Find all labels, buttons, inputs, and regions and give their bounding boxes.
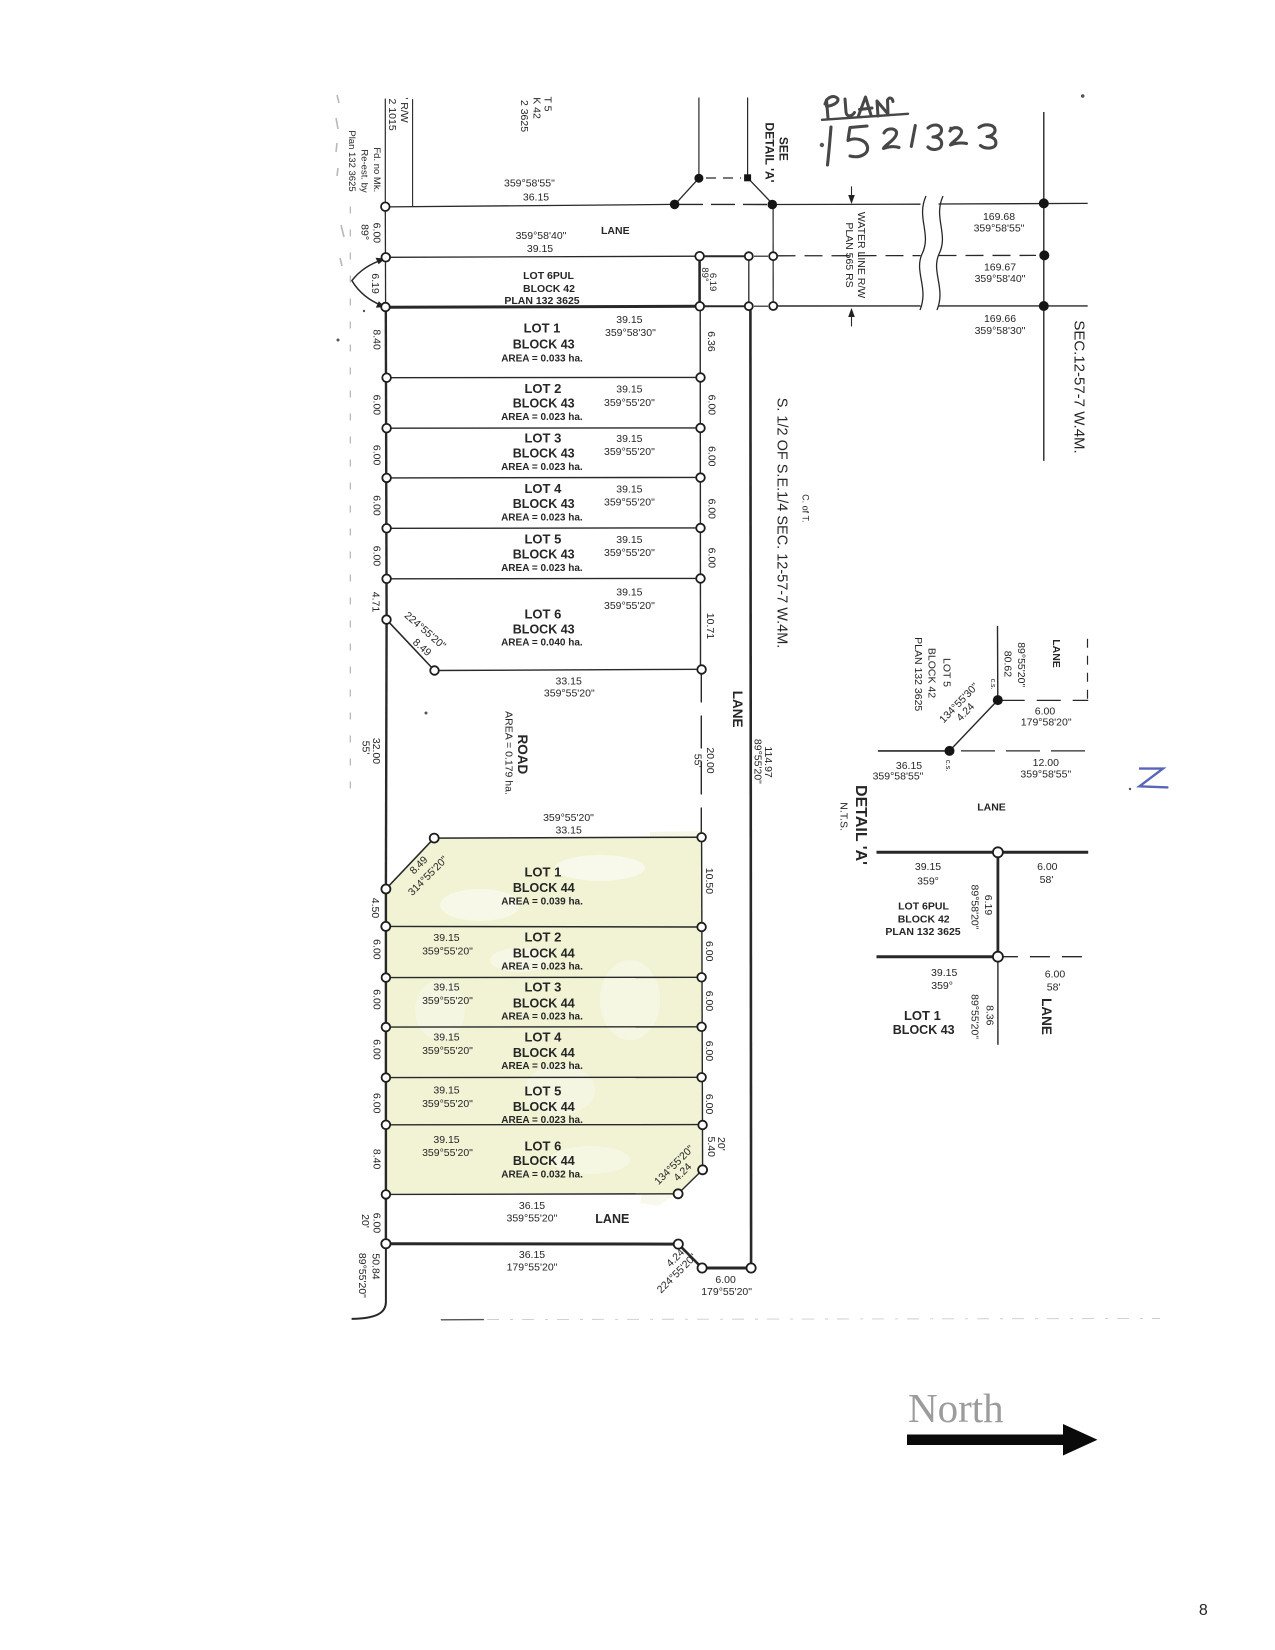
svg-text:LANE: LANE: [977, 802, 1006, 814]
west dim 50.84: [356, 1253, 382, 1298]
svg-text:6.36: 6.36: [705, 331, 717, 352]
DETAIL A : lot 5 block 42 label: [912, 637, 952, 711]
svg-text:6.00: 6.00: [1045, 969, 1066, 981]
svg-text:6.00: 6.00: [370, 546, 382, 567]
lot3/4 block43 line: [387, 476, 701, 479]
svg-text:6.00: 6.00: [370, 445, 382, 466]
svg-text:AREA = 0.033 ha.: AREA = 0.033 ha.: [501, 354, 583, 365]
svg-text:LANE: LANE: [1050, 639, 1062, 668]
svg-text:c.s.: c.s.: [989, 679, 996, 690]
svg-text:6.00: 6.00: [703, 1094, 715, 1115]
svg-text:359°55'20": 359°55'20": [604, 397, 655, 409]
svg-text:LOT 4: LOT 4: [524, 1029, 562, 1044]
svg-text:AREA = 0.039 ha.: AREA = 0.039 ha.: [501, 897, 583, 908]
detail A dim 12.00 359 58 55: [1020, 757, 1071, 780]
block 43 north boundary thick y=306: [386, 306, 699, 307]
lot 1 block 43: [501, 314, 656, 365]
svg-text:169.68: 169.68: [983, 211, 1015, 223]
169.67: [975, 262, 1026, 285]
svg-text:C. of T.: C. of T.: [801, 494, 811, 522]
detail A upper lane east dashed vertical: [1087, 639, 1089, 699]
detail A jog diagonal: [950, 700, 998, 751]
svg-text:SEE: SEE: [777, 137, 791, 161]
lot 4 block 43: [501, 481, 655, 523]
svg-text:AREA = 0.023 ha.: AREA = 0.023 ha.: [501, 1061, 583, 1072]
svg-text:BLOCK 44: BLOCK 44: [513, 997, 575, 1011]
section line x=1044: [1043, 112, 1045, 461]
svg-text:89°55'20": 89°55'20": [1015, 642, 1027, 687]
west boundary lane segment: [384, 207, 386, 307]
svg-text:359°58'30": 359°58'30": [975, 325, 1026, 337]
handwritten plan number 1521323: [828, 125, 996, 165]
svg-text:AREA = 0.023 ha.: AREA = 0.023 ha.: [501, 1012, 583, 1023]
neck segment y=256: [704, 255, 744, 257]
svg-text:39.15: 39.15: [433, 982, 459, 994]
detail A dim 6.00 179 58 20: [1021, 706, 1072, 729]
south lane jog diagonal: [678, 1244, 702, 1268]
svg-text:359°55'20": 359°55'20": [422, 946, 473, 958]
lane dim 20.00 55: [692, 747, 717, 773]
bottom page scan dotted line: [440, 1319, 1160, 1320]
svg-text:39.15: 39.15: [616, 314, 642, 326]
svg-text:4.71: 4.71: [369, 592, 381, 613]
lot 6 block 44: [422, 1134, 583, 1181]
top vertical into neck west: [698, 98, 700, 179]
left margin smudge marks: [336, 95, 344, 266]
svg-text:LANE: LANE: [595, 1212, 629, 1226]
svg-text:BLOCK 42: BLOCK 42: [523, 283, 575, 295]
svg-text:6.19: 6.19: [982, 895, 994, 916]
lot 5 block 44: [422, 1083, 583, 1126]
lot 2 block 44: [422, 930, 583, 973]
lot2/3 block43 line: [387, 427, 701, 429]
lots east edge thick top: [698, 256, 701, 306]
svg-text:89°55'20": 89°55'20": [356, 1253, 368, 1298]
svg-text:SEC.12-57-7 W.4M.: SEC.12-57-7 W.4M.: [1071, 320, 1088, 453]
stray scan specks: [337, 94, 1132, 790]
svg-text:359°55'20": 359°55'20": [422, 1147, 473, 1159]
svg-text:North: North: [908, 1385, 1004, 1431]
svg-text:c.s.: c.s.: [944, 760, 953, 772]
svg-text:169.67: 169.67: [984, 262, 1016, 274]
svg-text:AREA = 0.032 ha.: AREA = 0.032 ha.: [501, 1170, 583, 1181]
svg-text:AREA = 0.023 ha.: AREA = 0.023 ha.: [501, 412, 583, 423]
neck east diagonal: [748, 178, 774, 205]
svg-text:8.36: 8.36: [983, 1005, 995, 1026]
lot 3 block 44: [422, 980, 583, 1023]
svg-text:LANE: LANE: [1039, 998, 1054, 1035]
svg-text:BLOCK 44: BLOCK 44: [513, 1100, 575, 1114]
east boundary dim 89 55 20 114.97: [752, 739, 775, 784]
lane east dashed line: [700, 670, 702, 834]
SE corner dims 6.00: [701, 1274, 752, 1298]
short dash y=256: [754, 255, 768, 257]
east boundary thick x=750.6: [749, 306, 752, 1268]
svg-text:89°55'20": 89°55'20": [752, 739, 764, 784]
svg-text:LOT 6PUL: LOT 6PUL: [898, 901, 949, 913]
bottom lane labels: [506, 1200, 557, 1225]
svg-text:BLOCK 43: BLOCK 43: [513, 497, 575, 511]
R/W line x=412: [412, 99, 414, 206]
svg-text:359°58'40": 359°58'40": [975, 273, 1026, 285]
svg-text:10.71: 10.71: [704, 613, 716, 639]
svg-text:359°55'20": 359°55'20": [604, 446, 655, 458]
svg-text:359°55'20": 359°55'20": [604, 497, 655, 509]
detail A dashed line y=751: [961, 750, 1087, 752]
lots east edge block44: [702, 837, 703, 1170]
svg-text:6.00: 6.00: [715, 1274, 736, 1286]
west 6.00 89 dim: [358, 223, 382, 244]
detail A lot 6PUL label: [885, 901, 960, 938]
lot2/3 block44 line: [386, 976, 702, 978]
lot3/4 block44 line: [386, 1026, 702, 1028]
169.66: [975, 313, 1026, 337]
diagonal dim 224 55 20 / 8.49: [402, 610, 448, 659]
svg-text:BLOCK 43: BLOCK 43: [513, 446, 575, 460]
svg-text:20': 20': [359, 1214, 371, 1228]
water line RW label: [843, 212, 867, 298]
svg-text:LOT 6PUL: LOT 6PUL: [523, 270, 574, 282]
svg-text:55': 55': [692, 754, 704, 768]
svg-text:BLOCK 44: BLOCK 44: [513, 1154, 575, 1168]
neck west diagonal: [675, 178, 699, 204]
svg-text:LOT 3: LOT 3: [524, 980, 561, 995]
y=306 line east of break: [939, 305, 1088, 307]
svg-text:LOT 6: LOT 6: [524, 607, 561, 622]
svg-text:BLOCK 44: BLOCK 44: [513, 1046, 575, 1060]
svg-text:PLAN 132 3625: PLAN 132 3625: [912, 637, 924, 711]
svg-text:LANE: LANE: [601, 225, 630, 237]
svg-text:36.15: 36.15: [519, 1249, 545, 1261]
svg-text:4.50: 4.50: [369, 898, 381, 919]
svg-text:6.00: 6.00: [705, 499, 717, 520]
detail A dim 39.15 359 upper: [915, 861, 941, 887]
detail A lane dashed east of jog top: [1001, 699, 1088, 701]
lot 5 block 43: [501, 532, 655, 574]
svg-text:20.00: 20.00: [704, 747, 716, 773]
detail A dim 6.19 89 58 20: [969, 885, 994, 930]
svg-text:89°58'20": 89°58'20": [969, 885, 981, 930]
svg-text:LOT 5: LOT 5: [940, 658, 952, 687]
lane north line east of neck: [777, 203, 921, 205]
svg-text:5.40: 5.40: [705, 1136, 717, 1157]
handwritten underline: [822, 114, 908, 120]
svg-text:179°55'20": 179°55'20": [507, 1261, 558, 1273]
detail A dim 89 55 20 80.62: [1001, 642, 1027, 687]
svg-text:39.15: 39.15: [616, 384, 642, 396]
diagonal dim 8.49 314 55 20: [406, 854, 451, 899]
detail A dim 6.00 58 upper: [1037, 861, 1058, 886]
svg-text:DETAIL 'A': DETAIL 'A': [762, 123, 776, 183]
svg-text:39.15: 39.15: [527, 243, 553, 255]
top clipped labels lot5 block42: [518, 97, 554, 133]
neck outer vertical x=773: [772, 205, 774, 307]
svg-text:36.15: 36.15: [519, 1200, 545, 1212]
svg-text:2 1015: 2 1015: [386, 99, 398, 131]
svg-text:LOT 4: LOT 4: [524, 481, 562, 496]
water line RW dimension arrow top: [848, 186, 855, 204]
detail A dim 6.00 58 lower: [1045, 969, 1066, 994]
SEE DETAIL A label: [762, 123, 790, 183]
svg-text:359°55'20": 359°55'20": [604, 600, 655, 612]
handwritten PLAN heading: [825, 96, 893, 118]
svg-text:359°55'20": 359°55'20": [544, 688, 595, 700]
detail A vertical thin lower x=998: [997, 957, 999, 1045]
bearing 359 58 55 top: [504, 177, 555, 203]
svg-text:K 42: K 42: [530, 97, 542, 119]
block44 lot6 SE diagonal: [678, 1170, 703, 1194]
detail A upper lane west line: [997, 626, 999, 700]
diagonal dim 4.24 224 55 20: [646, 1243, 699, 1296]
svg-text:359°55'20": 359°55'20": [506, 1213, 557, 1225]
detail A dim 8.36 89 55 20: [969, 994, 996, 1039]
33.15 below lot6: [544, 676, 595, 700]
svg-text:359°58'55": 359°58'55": [873, 771, 924, 783]
block44 lot1 north line: [434, 836, 701, 839]
west dims block 44: [370, 939, 382, 1169]
lane north line dashed across neck: [679, 203, 768, 205]
west boundary thick road segment: [385, 620, 388, 889]
lot 2 block 43: [501, 381, 655, 423]
lots east edge block43: [699, 306, 701, 669]
lane north line y=206: [388, 204, 675, 207]
svg-text:80.62: 80.62: [1001, 651, 1013, 677]
svg-text:2 3625: 2 3625: [518, 100, 530, 132]
svg-text:BLOCK 42: BLOCK 42: [898, 913, 950, 925]
svg-text:359°: 359°: [931, 980, 953, 992]
svg-text:6.00: 6.00: [705, 446, 717, 467]
svg-text:PLAN 132 3625: PLAN 132 3625: [504, 295, 579, 307]
svg-text:AREA = 0.023 ha.: AREA = 0.023 ha.: [501, 462, 583, 473]
svg-text:33.15: 33.15: [556, 825, 582, 837]
svg-text:AREA = 0.023 ha.: AREA = 0.023 ha.: [501, 962, 583, 973]
east dims block 44: [703, 941, 715, 1114]
short dash y=306: [754, 305, 768, 307]
svg-text:179°55'20": 179°55'20": [701, 1286, 752, 1298]
svg-text:55': 55': [359, 741, 371, 755]
svg-text:89°55'20": 89°55'20": [969, 994, 981, 1039]
svg-text:BLOCK 43: BLOCK 43: [513, 338, 575, 352]
section quarter labels 169.68: [974, 211, 1025, 234]
svg-text:8: 8: [1199, 1602, 1208, 1619]
west boundary thick block44: [385, 889, 387, 1244]
svg-text:39.15: 39.15: [433, 1085, 459, 1097]
svg-text:WATER LINE R/W: WATER LINE R/W: [855, 212, 867, 298]
svg-text:359°58'55": 359°58'55": [974, 222, 1025, 234]
west dim 32.00 55: [359, 738, 382, 764]
south lane boundary thick: [386, 1242, 678, 1245]
Fd no Mk label: [346, 130, 382, 193]
svg-text:6.00: 6.00: [703, 991, 715, 1012]
svg-text:LOT 2: LOT 2: [524, 381, 561, 396]
lot5/6 block44 line: [386, 1124, 703, 1126]
svg-text:39.15: 39.15: [931, 967, 957, 979]
svg-text:BLOCK 43: BLOCK 43: [513, 397, 575, 411]
svg-text:LOT 1: LOT 1: [524, 321, 561, 336]
detail A west solid line y=751: [878, 750, 950, 752]
svg-text:AREA = 0.179 ha.: AREA = 0.179 ha.: [503, 711, 515, 795]
svg-text:6.00: 6.00: [1037, 861, 1058, 873]
svg-text:PLAN 132 3625: PLAN 132 3625: [885, 926, 960, 938]
svg-text:BLOCK 44: BLOCK 44: [513, 881, 575, 895]
svg-text:6.00: 6.00: [370, 495, 382, 516]
svg-text:6.00: 6.00: [703, 941, 715, 962]
svg-text:39.15: 39.15: [915, 861, 941, 873]
svg-text:58': 58': [1047, 981, 1061, 993]
water line RW dimension arrow bottom: [848, 308, 855, 327]
lot6 block44 south line: [386, 1193, 678, 1196]
svg-text:LANE: LANE: [730, 691, 745, 728]
svg-text:Re-est. by: Re-est. by: [359, 149, 370, 193]
svg-text:114.97: 114.97: [762, 746, 774, 777]
lane bearing 359 58 40: [516, 230, 567, 255]
svg-text:AREA = 0.023 ha.: AREA = 0.023 ha.: [501, 563, 583, 574]
svg-text:BLOCK 43: BLOCK 43: [893, 1023, 955, 1037]
svg-text:N.T.S.: N.T.S.: [837, 802, 849, 831]
lot 6PUL north line y=256: [386, 256, 699, 257]
svg-text:6.19: 6.19: [369, 273, 381, 294]
svg-text:Fd. no Mk.: Fd. no Mk.: [371, 147, 382, 192]
detail A vertical thick x=998: [997, 852, 1000, 956]
svg-text:LOT 2: LOT 2: [524, 930, 561, 945]
bottom scan dark dash: [441, 1319, 484, 1321]
svg-text:S. 1/2 OF S.E.1/4 SEC. 12-57-7: S. 1/2 OF S.E.1/4 SEC. 12-57-7 W.4M.: [773, 398, 789, 649]
detail A thick line y=957 west: [877, 955, 998, 958]
svg-text:6.00: 6.00: [370, 1213, 382, 1234]
west boundary upper thin: [384, 99, 386, 207]
svg-text:39.15: 39.15: [433, 1134, 459, 1146]
neck segment y=306: [704, 305, 744, 307]
filled monuments: [670, 174, 1050, 756]
monument open circles: [381, 202, 1003, 1272]
svg-text:8.40: 8.40: [370, 1149, 382, 1170]
svg-text:LOT 5: LOT 5: [524, 1083, 561, 1098]
west dims block 43: [369, 329, 382, 612]
6.19 west bracket with arrows: [352, 258, 386, 308]
ROAD label: [503, 711, 530, 795]
west boundary thick block43: [385, 307, 388, 621]
dashed quarter line y=255.5 east of break: [939, 254, 1037, 256]
svg-text:6.19: 6.19: [707, 273, 718, 292]
svg-text:ROAD: ROAD: [515, 735, 530, 775]
svg-text:359°58'55": 359°58'55": [1020, 768, 1071, 780]
svg-text:39.15: 39.15: [433, 932, 459, 944]
west jog diagonal block43 lot6: [387, 620, 435, 671]
svg-text:359°55'20": 359°55'20": [422, 1045, 473, 1057]
svg-text:33.15: 33.15: [556, 676, 582, 688]
svg-text:BLOCK 44: BLOCK 44: [513, 947, 575, 961]
svg-text:DETAIL 'A': DETAIL 'A': [852, 785, 869, 865]
svg-text:359°55'20": 359°55'20": [422, 995, 473, 1007]
svg-text:6.00: 6.00: [370, 395, 382, 416]
detail A dim 39.15 359 lower: [931, 967, 957, 992]
neck east vertical x=748.8: [748, 256, 750, 306]
y=306 line east of neck: [778, 305, 921, 307]
lane north line east of break: [939, 202, 1088, 205]
svg-text:PLAN 565 RS: PLAN 565 RS: [843, 222, 855, 287]
south lane jog east segment: [702, 1267, 751, 1270]
svg-text:6.00: 6.00: [370, 1093, 382, 1114]
svg-text:LOT 1: LOT 1: [524, 865, 561, 880]
svg-text:359°58'30": 359°58'30": [605, 327, 656, 339]
west boundary below lane with curve: [352, 1244, 386, 1319]
svg-text:6.00: 6.00: [371, 223, 383, 244]
lot 6 block 43: [501, 587, 655, 649]
svg-text:359°58'55": 359°58'55": [504, 177, 555, 189]
RW 2 1015 label: [386, 97, 410, 130]
svg-text:LOT 3: LOT 3: [524, 431, 561, 446]
neck 89 6.19 dim: [699, 267, 718, 291]
svg-text:BLOCK 43: BLOCK 43: [513, 547, 575, 561]
lot 3 block 43: [501, 431, 655, 473]
diagonal dim 134 55 20 4.24: [652, 1143, 704, 1195]
svg-text:6.00: 6.00: [370, 1039, 382, 1060]
svg-text:50.84: 50.84: [369, 1253, 381, 1279]
lot4/5 block44 line: [386, 1076, 702, 1078]
svg-text:39.15: 39.15: [616, 483, 642, 495]
svg-text:36.15: 36.15: [523, 192, 549, 204]
east dims block 43: [704, 331, 717, 639]
below lane dims: [507, 1249, 558, 1274]
svg-text:LOT 5: LOT 5: [524, 532, 561, 547]
highlighter wash over Block 44 lots: [386, 831, 703, 1206]
svg-text:359°55'20": 359°55'20": [604, 547, 655, 559]
north arrow: [907, 1424, 1098, 1456]
svg-text:AREA = 0.023 ha.: AREA = 0.023 ha.: [501, 513, 583, 524]
svg-text:AREA = 0.023 ha.: AREA = 0.023 ha.: [501, 1115, 583, 1126]
bearing above block44: [543, 812, 594, 837]
svg-text:39.15: 39.15: [433, 1031, 459, 1043]
lot1/2 block44 line: [386, 925, 702, 928]
svg-text:BLOCK 42: BLOCK 42: [925, 648, 937, 698]
break symbol S-curves: [920, 196, 943, 310]
svg-text:6.00: 6.00: [705, 548, 717, 569]
lot1/2 block43 line: [387, 376, 701, 378]
svg-text:6.00: 6.00: [370, 939, 382, 960]
svg-text:39.15: 39.15: [616, 587, 642, 599]
dashed quarter line y=255.5: [778, 255, 921, 257]
svg-text:LOT 1: LOT 1: [904, 1008, 941, 1023]
svg-text:Plan 132 3625: Plan 132 3625: [346, 130, 357, 191]
svg-text:179°58'20": 179°58'20": [1021, 717, 1072, 729]
svg-text:AREA = 0.040 ha.: AREA = 0.040 ha.: [501, 637, 583, 648]
svg-text:8.40: 8.40: [370, 329, 382, 350]
svg-text:12.00: 12.00: [1033, 757, 1059, 769]
svg-text:39.15: 39.15: [616, 534, 642, 546]
svg-text:359°55'20": 359°55'20": [543, 812, 594, 824]
svg-text:169.66: 169.66: [984, 313, 1016, 325]
svg-text:39.15: 39.15: [616, 433, 642, 445]
detail A lot 1 block 43 label: [893, 1008, 955, 1037]
svg-text:' R/W: ' R/W: [398, 97, 410, 122]
detail A thick line y=852: [877, 851, 1089, 854]
svg-text:359°: 359°: [917, 875, 939, 887]
dim 20' 5.40: [705, 1136, 727, 1157]
svg-text:BLOCK 43: BLOCK 43: [513, 623, 575, 637]
west dim 6.00 20' bottom: [359, 1213, 382, 1234]
svg-text:58': 58': [1040, 874, 1054, 886]
detail A dashed line y=957 east: [998, 956, 1088, 958]
detail A diagonal dim 134 55 30 4.24: [937, 681, 989, 734]
svg-text:6.00: 6.00: [370, 989, 382, 1010]
lot 6PUL block 42 label: [504, 270, 579, 307]
svg-text:359°55'20": 359°55'20": [422, 1098, 473, 1110]
lot5/6 block43 line: [387, 577, 701, 579]
top vertical into neck east: [747, 98, 749, 178]
svg-text:89°: 89°: [358, 224, 370, 240]
west jog diagonal block44 lot1: [386, 838, 434, 889]
lot 1 block 44: [501, 865, 583, 908]
